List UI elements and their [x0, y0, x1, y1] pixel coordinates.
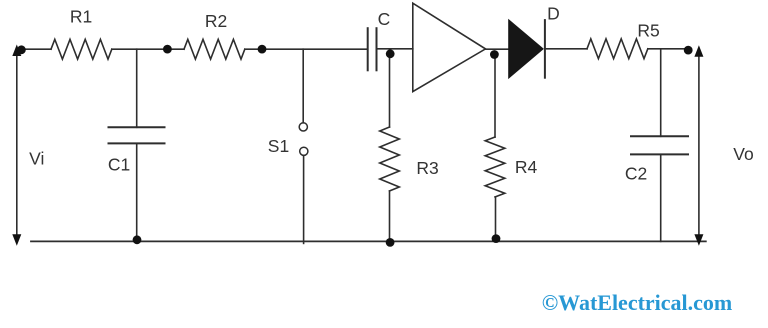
wire S1 branch lower: [303, 155, 305, 243]
resistor R4: [485, 137, 505, 197]
svg-text:Vo: Vo: [733, 144, 753, 164]
wire C2 branch upper: [660, 49, 662, 137]
Vo measurement arrow: [698, 53, 700, 238]
svg-text:R5: R5: [637, 21, 659, 41]
wire R5 to output node: [648, 48, 688, 50]
wire C1 branch upper: [136, 49, 138, 127]
wire R1 to R2 (through C1 tee): [112, 48, 184, 50]
svg-text:R1: R1: [70, 7, 92, 27]
wire bottom rail: [31, 240, 706, 242]
resistor R2: [184, 39, 245, 59]
wire S1 branch upper: [302, 49, 304, 123]
diode D: [508, 19, 544, 79]
Vi arrow head top: [12, 45, 21, 57]
wire R4 branch lower: [495, 197, 497, 241]
wire top rail left: node to R1: [21, 48, 51, 50]
capacitor C1 plates: [109, 126, 165, 128]
Vi measurement arrow: [16, 53, 18, 238]
wire R2 to capacitor C (through S1 tee): [245, 48, 368, 50]
node U1 output / R4 branch: [490, 50, 499, 59]
resistor R5: [587, 39, 648, 59]
svg-text:Vi: Vi: [29, 148, 44, 168]
Vo arrow head bottom: [694, 234, 703, 246]
wire C1 branch lower: [136, 143, 138, 241]
switch S1 contact circles: [299, 123, 307, 131]
wire U1 to diode D: [486, 48, 509, 50]
svg-text:R2: R2: [205, 11, 227, 31]
svg-text:R3: R3: [416, 158, 438, 178]
wire diode to R5: [545, 48, 587, 50]
wire C to op-amp U1: [377, 48, 413, 50]
node after R2: [258, 45, 267, 54]
node R4 bottom: [492, 234, 501, 243]
node C / R3 branch: [386, 49, 395, 58]
node output right: [684, 46, 693, 55]
svg-text:C1: C1: [108, 155, 130, 175]
op-amp U1 buffer triangle: [413, 3, 486, 91]
node R3 bottom: [386, 238, 395, 247]
svg-text:C: C: [378, 9, 391, 29]
svg-text:R4: R4: [515, 157, 538, 177]
Vo arrow head top: [694, 45, 703, 57]
node between R1 and R2: [163, 45, 172, 54]
capacitor C plates: [367, 28, 369, 70]
svg-text:D: D: [547, 4, 560, 24]
capacitor C2 plates: [631, 135, 688, 137]
wire R3 branch upper: [389, 49, 391, 127]
svg-text:S1: S1: [268, 136, 289, 156]
node C1 bottom: [133, 235, 142, 244]
resistor R3: [380, 127, 400, 191]
Vi arrow head bottom: [12, 234, 21, 246]
svg-text:©WatElectrical.com: ©WatElectrical.com: [542, 290, 733, 315]
resistor R1: [51, 39, 112, 59]
wire R3 branch lower: [389, 191, 391, 241]
wire R4 branch upper: [494, 55, 496, 138]
svg-text:C2: C2: [625, 164, 647, 184]
node top-left: [17, 45, 26, 54]
wire C2 branch lower: [660, 154, 662, 241]
